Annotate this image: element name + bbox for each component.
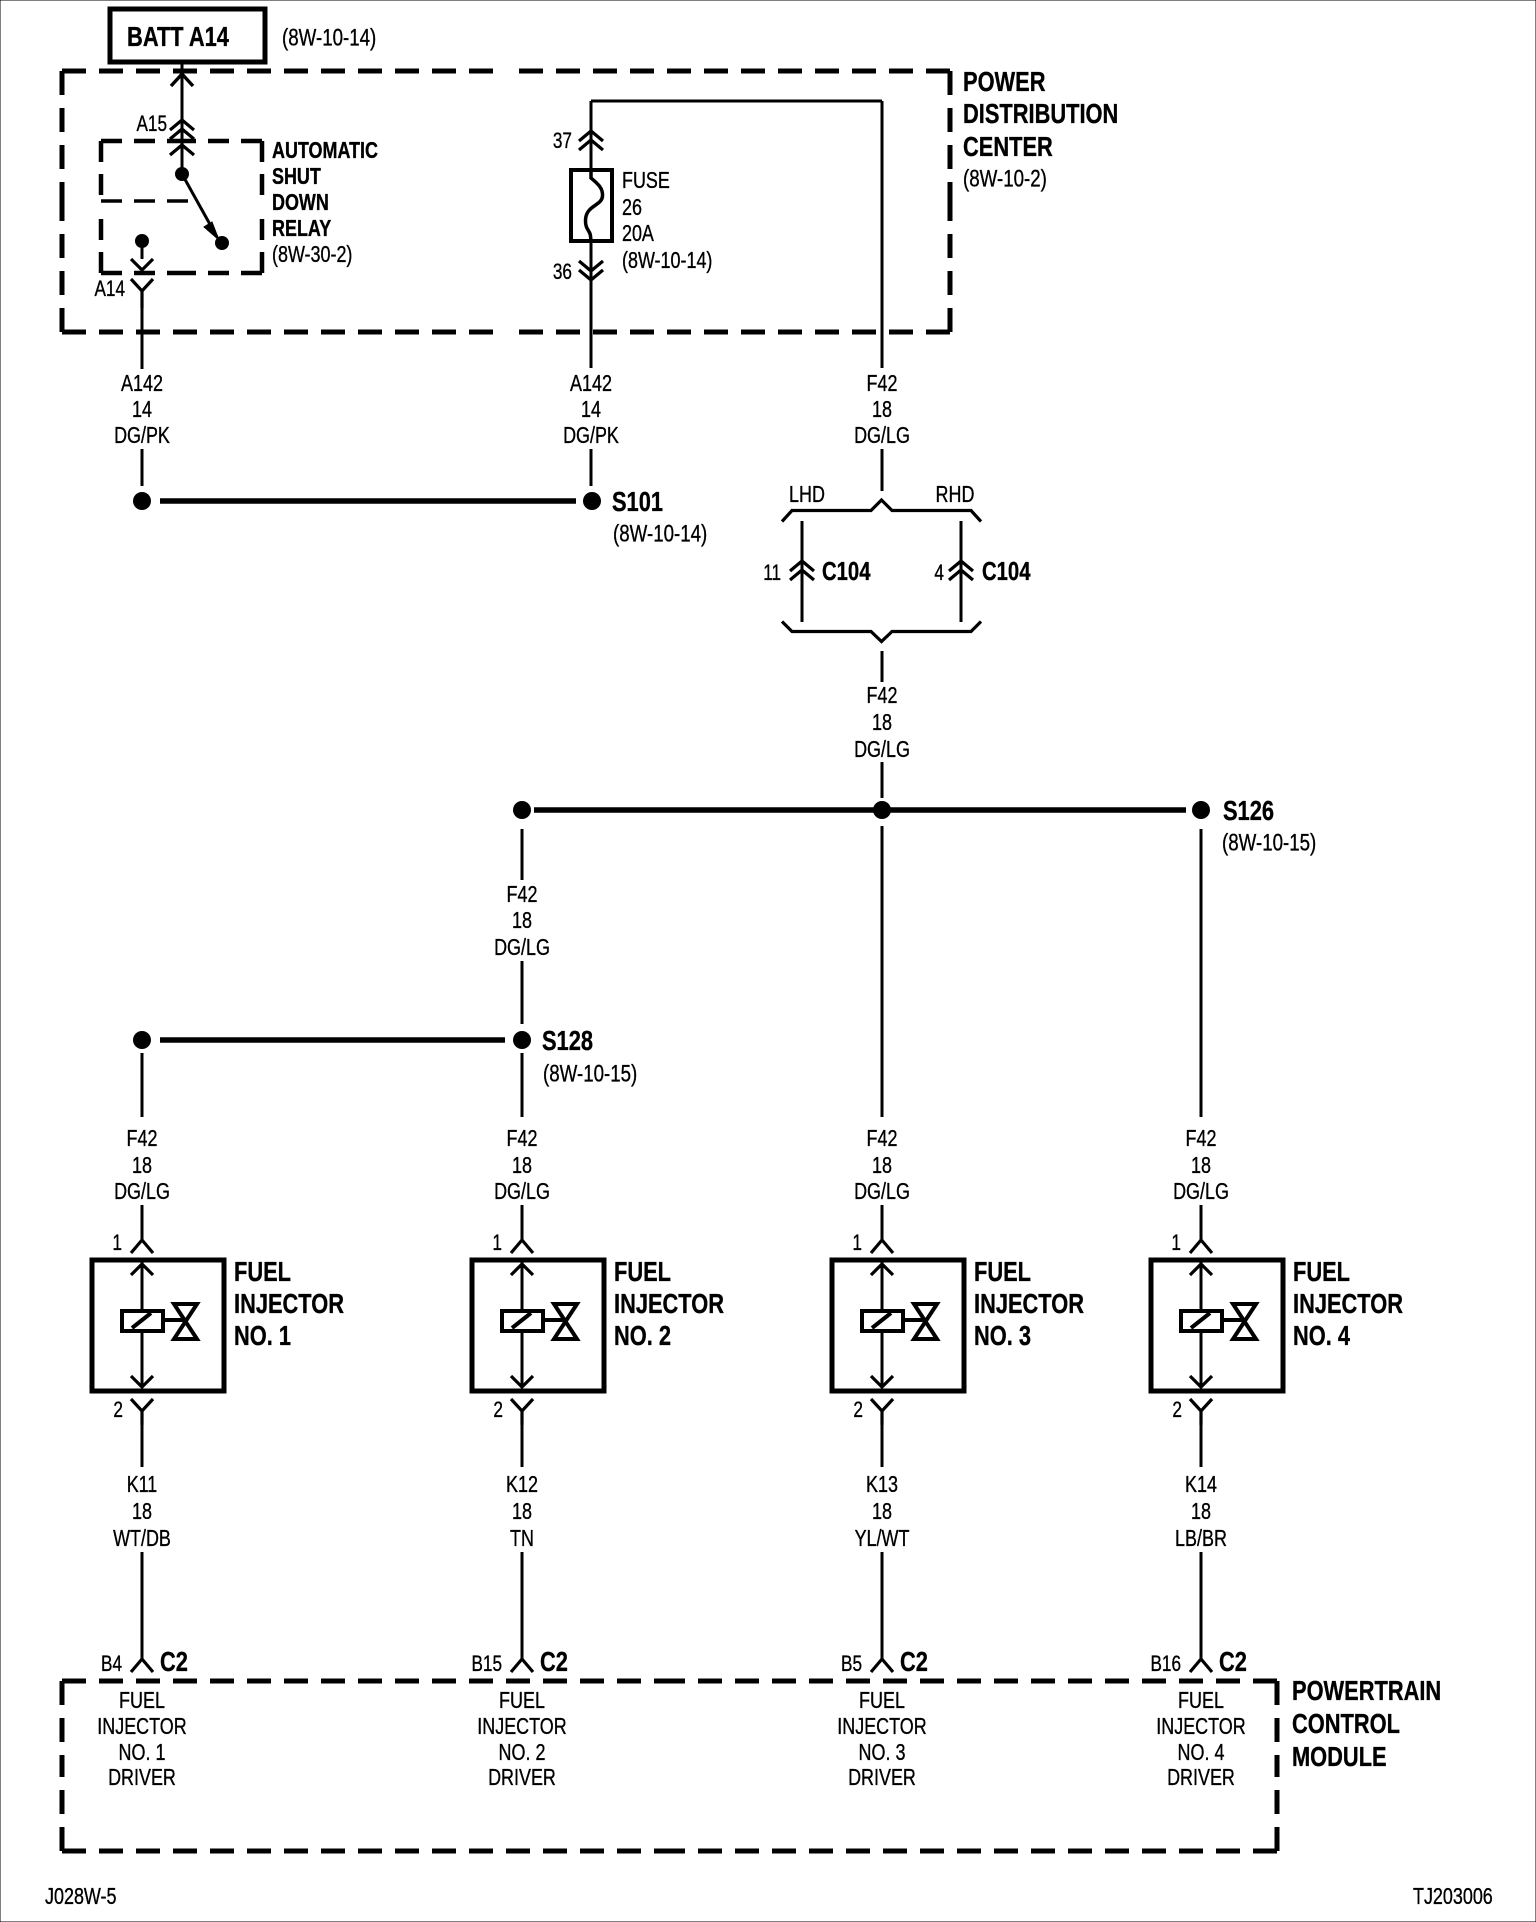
relay switch arm with arrowhead: [182, 174, 219, 240]
wire F42 to injector 3 pin 1: [881, 1205, 884, 1240]
connector C104 pin 4 chevrons: [949, 561, 973, 580]
svg-text:K11: K11: [127, 1471, 158, 1497]
svg-text:A14: A14: [95, 276, 126, 301]
pin label 4: [934, 560, 944, 585]
wire K12 to PCM: [521, 1552, 524, 1659]
svg-text:NO. 1: NO. 1: [119, 1739, 166, 1765]
svg-text:14: 14: [581, 396, 601, 422]
injector 2 valve link: [543, 1318, 565, 1322]
fuel injector no. 4 driver label: [1156, 1687, 1245, 1790]
fuel injector no. 1 label: [234, 1256, 344, 1351]
svg-text:F42: F42: [127, 1125, 158, 1151]
svg-text:TN: TN: [510, 1525, 534, 1551]
relay common node dot: [175, 167, 189, 181]
svg-text:FUEL: FUEL: [1293, 1256, 1350, 1287]
svg-text:C2: C2: [1219, 1646, 1247, 1677]
connector pin 36 double chevron: [579, 261, 603, 280]
pin label B16: [1151, 1651, 1182, 1676]
svg-text:18: 18: [1191, 1498, 1211, 1524]
svg-text:FUEL: FUEL: [1178, 1687, 1224, 1713]
wire label A142 14 DG/PK (relay column): [114, 370, 170, 448]
connector C104 pin 11 chevrons: [790, 561, 814, 580]
svg-text:18: 18: [872, 709, 892, 735]
svg-text:DG/LG: DG/LG: [854, 422, 910, 448]
splice S128 left dot: [133, 1031, 151, 1049]
PCM connector C2 pin B4: [131, 1659, 153, 1672]
svg-text:FUSE: FUSE: [622, 167, 670, 193]
wire from relay pin A15 to BATT A14: [181, 62, 184, 146]
injector 4 valve link: [1222, 1318, 1244, 1322]
svg-text:S126: S126: [1223, 795, 1274, 826]
svg-text:FUEL: FUEL: [234, 1256, 291, 1287]
wire label K12 18 TN: [506, 1471, 538, 1551]
svg-text:4: 4: [934, 560, 944, 585]
svg-text:K12: K12: [506, 1471, 538, 1497]
svg-text:B4: B4: [101, 1651, 122, 1676]
injector 2 internal wire: [511, 1262, 533, 1388]
powertrain control module label: [1292, 1675, 1441, 1772]
wire fuse to pin 36: [590, 242, 593, 368]
svg-text:MODULE: MODULE: [1292, 1741, 1387, 1772]
pin label 2 (injector 4): [1172, 1397, 1182, 1422]
splice S128 label: [542, 1025, 637, 1088]
wire label F42 18 DG/LG (injector 3): [854, 1125, 910, 1204]
wire A142 to splice S101 left: [141, 449, 144, 486]
injector 3 pin 2 connector: [871, 1399, 893, 1425]
svg-text:S128: S128: [542, 1025, 593, 1056]
svg-text:K13: K13: [866, 1471, 898, 1497]
fuel injector no. 4 label: [1293, 1256, 1403, 1351]
connector A15 double chevron: [170, 120, 194, 139]
svg-text:26: 26: [622, 194, 642, 220]
svg-text:(8W-10-15): (8W-10-15): [543, 1061, 637, 1088]
injector 4 pin 1 connector: [1190, 1240, 1212, 1253]
svg-text:(8W-10-14): (8W-10-14): [622, 247, 712, 273]
fuse 26 20A: [571, 170, 612, 241]
connector label C2 (injector 4 driver): [1219, 1646, 1247, 1677]
injector 3 internal wire: [871, 1262, 893, 1388]
svg-text:2: 2: [853, 1397, 863, 1422]
svg-text:INJECTOR: INJECTOR: [1156, 1713, 1245, 1739]
svg-text:F42: F42: [867, 1125, 898, 1151]
svg-text:C104: C104: [822, 556, 871, 586]
svg-text:B15: B15: [472, 1651, 503, 1676]
reference (8W-10-14) for BATT A14: [282, 25, 376, 52]
svg-text:INJECTOR: INJECTOR: [1293, 1288, 1403, 1319]
svg-text:18: 18: [512, 907, 532, 933]
pin label 2 (injector 3): [853, 1397, 863, 1422]
svg-text:1: 1: [1171, 1230, 1181, 1255]
splice S101 wire: [160, 498, 576, 504]
svg-text:37: 37: [553, 128, 572, 153]
wire S126 to F42 label (column 2): [521, 829, 524, 880]
wire F42 from PDC down: [881, 101, 884, 368]
pin label B5: [841, 1651, 862, 1676]
wire label A142 14 DG/PK (fuse column): [563, 370, 619, 448]
svg-text:FUEL: FUEL: [974, 1256, 1031, 1287]
wire label K11 18 WT/DB: [113, 1471, 171, 1551]
svg-text:18: 18: [512, 1498, 532, 1524]
connector pin 37 double chevron: [579, 131, 603, 150]
wire S128 down (column 1): [141, 1053, 144, 1117]
svg-text:11: 11: [763, 560, 781, 585]
svg-text:INJECTOR: INJECTOR: [974, 1288, 1084, 1319]
svg-text:INJECTOR: INJECTOR: [234, 1288, 344, 1319]
fuel injector no. 2 box: [472, 1260, 604, 1391]
splice S128 right dot: [513, 1031, 531, 1049]
svg-text:B16: B16: [1151, 1651, 1182, 1676]
svg-text:NO. 4: NO. 4: [1178, 1739, 1225, 1765]
svg-text:2: 2: [493, 1397, 503, 1422]
svg-text:INJECTOR: INJECTOR: [614, 1288, 724, 1319]
pin label A15: [137, 111, 168, 136]
svg-text:1: 1: [492, 1230, 502, 1255]
injector 3 coil symbol: [862, 1311, 903, 1331]
pin label 2 (injector 1): [113, 1397, 123, 1422]
svg-text:CONTROL: CONTROL: [1292, 1708, 1400, 1739]
svg-text:S101: S101: [612, 486, 663, 517]
relay output node dot: [135, 234, 149, 248]
powertrain control module dashed box: [62, 1681, 1277, 1851]
svg-text:TJ203006: TJ203006: [1413, 1883, 1493, 1909]
pin label 1 (injector 3): [852, 1230, 862, 1255]
svg-text:DG/PK: DG/PK: [563, 422, 619, 448]
svg-text:FUEL: FUEL: [499, 1687, 545, 1713]
splice S101 right dot: [583, 492, 601, 510]
svg-text:(8W-30-2): (8W-30-2): [272, 241, 352, 267]
wire label F42 18 DG/LG (PDC column): [854, 370, 910, 448]
wire S126 down (column 3): [881, 826, 884, 1117]
connector C104 label (LHD): [822, 556, 871, 586]
pin label 1 (injector 2): [492, 1230, 502, 1255]
pin label 37: [553, 128, 572, 153]
wire label F42 18 DG/LG (injector 4): [1173, 1125, 1229, 1204]
svg-text:RELAY: RELAY: [272, 215, 331, 241]
pin label B15: [472, 1651, 503, 1676]
connector A14: [131, 279, 153, 308]
injector 1 pin 1 connector: [131, 1240, 153, 1253]
connector label C2 (injector 2 driver): [540, 1646, 568, 1677]
injector 4 valve symbol: [1233, 1304, 1256, 1339]
connector label C2 (injector 3 driver): [900, 1646, 928, 1677]
svg-text:SHUT: SHUT: [272, 163, 321, 189]
svg-text:DISTRIBUTION: DISTRIBUTION: [963, 98, 1118, 129]
svg-text:DOWN: DOWN: [272, 189, 329, 215]
wire F42 to injector 4 pin 1: [1200, 1205, 1203, 1240]
wire K13 to PCM: [881, 1552, 884, 1659]
injector 3 valve link: [903, 1318, 925, 1322]
C104 bottom brace: [782, 622, 981, 642]
svg-text:B5: B5: [841, 1651, 862, 1676]
pin label 2 (injector 2): [493, 1397, 503, 1422]
fuel injector no. 1 box: [92, 1260, 224, 1391]
svg-text:C104: C104: [982, 556, 1031, 586]
injector 1 valve symbol: [174, 1304, 197, 1339]
wire below C104: [881, 651, 884, 682]
wire label K14 18 LB/BR: [1175, 1471, 1227, 1551]
svg-text:(8W-10-14): (8W-10-14): [613, 521, 707, 548]
svg-text:DG/LG: DG/LG: [1173, 1178, 1229, 1204]
svg-text:14: 14: [132, 396, 152, 422]
svg-text:DRIVER: DRIVER: [848, 1764, 916, 1790]
svg-text:WT/DB: WT/DB: [113, 1525, 171, 1551]
svg-text:DRIVER: DRIVER: [108, 1764, 176, 1790]
injector 1 pin 2 connector: [131, 1399, 153, 1425]
svg-text:(8W-10-2): (8W-10-2): [963, 166, 1047, 193]
wire A14 down: [141, 308, 144, 369]
splice S101 label: [612, 486, 707, 548]
label LHD: [789, 481, 825, 507]
relay NO contact dot: [215, 236, 229, 250]
svg-text:1: 1: [112, 1230, 122, 1255]
svg-text:POWER: POWER: [963, 66, 1046, 97]
svg-text:20A: 20A: [622, 220, 654, 246]
wire injector 3 pin 2 down: [881, 1425, 884, 1467]
svg-text:INJECTOR: INJECTOR: [837, 1713, 926, 1739]
fuse label: [622, 167, 712, 273]
svg-text:BATT A14: BATT A14: [127, 21, 229, 52]
connector label C2 (injector 1 driver): [160, 1646, 188, 1677]
automatic shut down relay label: [272, 137, 378, 267]
wire injector 4 pin 2 down: [1200, 1425, 1203, 1467]
connector C104 label (RHD): [982, 556, 1031, 586]
svg-text:2: 2: [1172, 1397, 1182, 1422]
svg-text:RHD: RHD: [936, 481, 975, 507]
pin label 1 (injector 4): [1171, 1230, 1181, 1255]
wire injector 2 pin 2 down: [521, 1425, 524, 1467]
PCM connector C2 pin B15: [511, 1659, 533, 1672]
wire label F42 18 DG/LG (column 2 upper): [494, 881, 550, 960]
svg-text:36: 36: [553, 259, 572, 284]
svg-text:DG/LG: DG/LG: [114, 1178, 170, 1204]
wire A142 to splice S101 right: [590, 449, 593, 486]
wire F42 to splice S126: [881, 762, 884, 798]
svg-text:POWERTRAIN: POWERTRAIN: [1292, 1675, 1441, 1706]
svg-text:A15: A15: [137, 111, 168, 136]
svg-text:(8W-10-14): (8W-10-14): [282, 25, 376, 52]
svg-text:NO. 2: NO. 2: [499, 1739, 546, 1765]
wire injector 1 pin 2 down: [141, 1425, 144, 1467]
svg-text:LB/BR: LB/BR: [1175, 1525, 1227, 1551]
svg-text:F42: F42: [507, 881, 538, 907]
fuel injector no. 3 driver label: [837, 1687, 926, 1790]
wire F42 to splice S128: [521, 961, 524, 1024]
wire S126 down (column 4): [1200, 829, 1203, 1117]
pin label 36: [553, 259, 572, 284]
splice S128 wire: [160, 1037, 505, 1043]
relay common terminal wire: [170, 145, 194, 174]
pin label B4: [101, 1651, 122, 1676]
pin label 11: [763, 560, 781, 585]
svg-text:INJECTOR: INJECTOR: [97, 1713, 186, 1739]
svg-text:FUEL: FUEL: [614, 1256, 671, 1287]
wire F42 to injector 2 pin 1: [521, 1205, 524, 1240]
C104 RHD branch wire: [960, 521, 963, 622]
battery feed fuse block box BATT A14: [110, 9, 265, 62]
splice S101 left dot: [133, 492, 151, 510]
wire F42 to injector 1 pin 1: [141, 1205, 144, 1240]
pin label 1 (injector 1): [112, 1230, 122, 1255]
pin label A14: [95, 276, 126, 301]
injector 1 internal wire: [131, 1262, 153, 1388]
fuel injector no. 2 driver label: [477, 1687, 566, 1790]
svg-text:F42: F42: [507, 1125, 538, 1151]
svg-text:DG/LG: DG/LG: [494, 1178, 550, 1204]
fuel injector no. 4 box: [1151, 1260, 1283, 1391]
svg-text:NO. 3: NO. 3: [859, 1739, 906, 1765]
injector 3 pin 1 connector: [871, 1240, 893, 1253]
fuel injector no. 1 driver label: [97, 1687, 186, 1790]
automatic shut down relay dashed box: [101, 141, 262, 273]
svg-text:18: 18: [872, 1152, 892, 1178]
C104 top brace: [782, 500, 981, 522]
injector 4 pin 2 connector: [1190, 1399, 1212, 1425]
svg-text:18: 18: [872, 396, 892, 422]
splice S126 wire: [534, 807, 1186, 813]
svg-text:18: 18: [872, 1498, 892, 1524]
arrow into BATT A14: [171, 74, 193, 86]
C104 LHD branch wire: [801, 521, 804, 622]
injector 2 pin 2 connector: [511, 1399, 533, 1425]
svg-text:INJECTOR: INJECTOR: [477, 1713, 566, 1739]
svg-text:1: 1: [852, 1230, 862, 1255]
svg-text:F42: F42: [867, 370, 898, 396]
wire from PDC bus to fuse 26 pin 37: [591, 101, 882, 170]
svg-text:FUEL: FUEL: [859, 1687, 905, 1713]
wire K14 to PCM: [1200, 1552, 1203, 1659]
svg-text:NO. 2: NO. 2: [614, 1320, 671, 1351]
splice S126 junction dot: [873, 801, 891, 819]
fuel injector no. 3 box: [832, 1260, 964, 1391]
svg-text:NO. 1: NO. 1: [234, 1320, 291, 1351]
svg-text:F42: F42: [867, 682, 898, 708]
injector 1 coil symbol: [122, 1311, 163, 1331]
svg-text:F42: F42: [1186, 1125, 1217, 1151]
svg-text:A142: A142: [121, 370, 163, 396]
svg-text:A142: A142: [570, 370, 612, 396]
splice S126 label: [1222, 795, 1316, 857]
injector 2 pin 1 connector: [511, 1240, 533, 1253]
svg-text:DRIVER: DRIVER: [488, 1764, 556, 1790]
injector 2 coil symbol: [502, 1311, 543, 1331]
svg-text:C2: C2: [540, 1646, 568, 1677]
wire F42 to C104 brace: [881, 449, 884, 491]
PCM connector C2 pin B5: [871, 1659, 893, 1672]
injector 3 valve symbol: [914, 1304, 937, 1339]
svg-text:DG/PK: DG/PK: [114, 422, 170, 448]
svg-text:2: 2: [113, 1397, 123, 1422]
wire label F42 18 DG/LG (below C104): [854, 682, 910, 762]
svg-text:(8W-10-15): (8W-10-15): [1222, 830, 1316, 857]
svg-text:NO. 4: NO. 4: [1293, 1320, 1350, 1351]
wire label F42 18 DG/LG (injector 1): [114, 1125, 170, 1204]
svg-text:18: 18: [512, 1152, 532, 1178]
svg-text:18: 18: [1191, 1152, 1211, 1178]
diagram id TJ203006: [1413, 1883, 1493, 1909]
power distribution center label: [963, 66, 1118, 193]
svg-text:18: 18: [132, 1498, 152, 1524]
svg-text:NO. 3: NO. 3: [974, 1320, 1031, 1351]
svg-text:CENTER: CENTER: [963, 131, 1053, 162]
svg-text:FUEL: FUEL: [119, 1687, 165, 1713]
wire S128 down (column 2): [521, 1053, 524, 1117]
relay internal divider: [101, 199, 198, 203]
svg-text:DRIVER: DRIVER: [1167, 1764, 1235, 1790]
fuel injector no. 2 label: [614, 1256, 724, 1351]
injector 4 internal wire: [1190, 1262, 1212, 1388]
svg-text:YL/WT: YL/WT: [855, 1525, 910, 1551]
svg-text:LHD: LHD: [789, 481, 825, 507]
svg-text:AUTOMATIC: AUTOMATIC: [272, 137, 378, 163]
injector 1 valve link: [163, 1318, 185, 1322]
label RHD: [936, 481, 975, 507]
diagram id J028W-5: [45, 1883, 117, 1909]
injector 2 valve symbol: [554, 1304, 577, 1339]
injector 4 coil symbol: [1181, 1311, 1222, 1331]
splice S126 left dot: [513, 801, 531, 819]
wire label F42 18 DG/LG (injector 2): [494, 1125, 550, 1204]
svg-text:J028W-5: J028W-5: [45, 1883, 117, 1909]
power distribution center dashed box: [62, 71, 950, 332]
svg-text:DG/LG: DG/LG: [854, 736, 910, 762]
svg-text:K14: K14: [1185, 1471, 1217, 1497]
fuel injector no. 3 label: [974, 1256, 1084, 1351]
svg-text:C2: C2: [900, 1646, 928, 1677]
splice S126 right dot: [1192, 801, 1210, 819]
relay output wire to pin A14: [131, 241, 153, 270]
wire K11 to PCM: [141, 1552, 144, 1659]
svg-text:18: 18: [132, 1152, 152, 1178]
svg-text:C2: C2: [160, 1646, 188, 1677]
svg-text:DG/LG: DG/LG: [854, 1178, 910, 1204]
svg-text:DG/LG: DG/LG: [494, 934, 550, 960]
wire label K13 18 YL/WT: [855, 1471, 910, 1551]
PCM connector C2 pin B16: [1190, 1659, 1212, 1672]
